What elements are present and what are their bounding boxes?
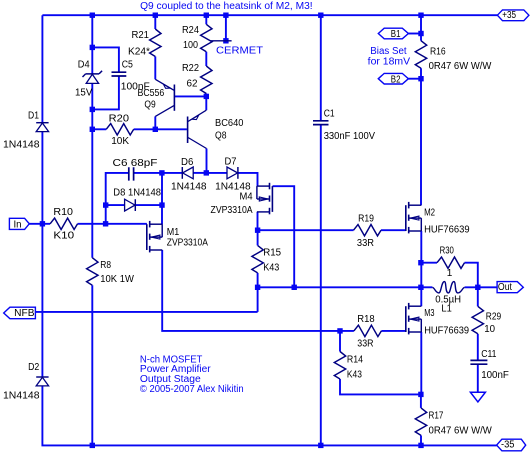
svg-text:K43: K43 <box>263 263 279 274</box>
junction <box>337 328 342 333</box>
svg-text:M2: M2 <box>424 208 435 219</box>
resistor R21 <box>128 29 161 58</box>
power tag +35 <box>497 10 529 21</box>
svg-text:BC640: BC640 <box>215 118 244 129</box>
wire <box>257 212 259 230</box>
diode D7 1N4148 <box>215 156 251 192</box>
mosfet M4 ZVP3310A (P-ch) <box>211 183 273 216</box>
junction <box>255 285 260 290</box>
svg-text:R14: R14 <box>347 354 364 365</box>
svg-text:15V: 15V <box>75 87 93 98</box>
wire <box>134 172 162 174</box>
wire <box>421 262 437 264</box>
wire <box>477 364 479 392</box>
wire <box>320 15 322 121</box>
svg-text:R24: R24 <box>182 25 199 36</box>
wire <box>339 331 341 352</box>
resistor R10 <box>50 207 78 241</box>
svg-text:BC556: BC556 <box>138 88 165 99</box>
wire <box>91 285 93 445</box>
svg-text:D2: D2 <box>28 362 40 373</box>
svg-text:0R47 6W W/W: 0R47 6W W/W <box>429 425 493 436</box>
svg-text:M3: M3 <box>424 308 435 319</box>
resistor R14 <box>334 352 363 381</box>
svg-text:D7: D7 <box>225 156 237 167</box>
wire <box>257 273 259 287</box>
svg-text:33R: 33R <box>357 338 373 349</box>
wire <box>408 33 421 35</box>
capacitor C1 <box>313 108 375 142</box>
svg-text:Bias Set: Bias Set <box>370 46 407 57</box>
svg-text:R16: R16 <box>430 47 446 58</box>
svg-text:D8 1N4148: D8 1N4148 <box>113 188 161 199</box>
wire <box>154 15 156 29</box>
junction <box>475 285 480 290</box>
svg-text:R22: R22 <box>182 63 199 74</box>
svg-text:330nF 100V: 330nF 100V <box>324 131 376 142</box>
junction <box>103 221 108 226</box>
wire <box>465 286 498 288</box>
wire <box>91 15 93 47</box>
svg-text:D1: D1 <box>28 110 39 121</box>
svg-text:NFB: NFB <box>14 308 35 319</box>
wire <box>258 286 421 288</box>
junction <box>90 127 95 132</box>
junction <box>418 285 423 290</box>
resistor R16 <box>415 41 492 72</box>
transistor Q8 BC640 (PNP) <box>188 110 244 148</box>
mosfet M2 HUF76639 (N-ch) <box>406 202 470 236</box>
wire <box>320 125 322 446</box>
capacitor C6 <box>113 158 158 181</box>
svg-text:10K: 10K <box>111 136 129 147</box>
svg-text:C11: C11 <box>481 349 497 360</box>
svg-text:D4: D4 <box>78 59 90 70</box>
resistor R17 <box>415 408 492 437</box>
svg-text:62: 62 <box>187 78 198 89</box>
wire <box>257 230 259 245</box>
diode D2 1N4148 <box>3 362 49 401</box>
junction <box>90 107 95 112</box>
port tag In <box>9 218 29 230</box>
wire <box>205 94 207 97</box>
wire <box>29 223 50 225</box>
svg-text:100nF: 100nF <box>481 370 509 381</box>
junction <box>153 13 158 18</box>
svg-text:100: 100 <box>183 40 198 51</box>
svg-text:10K 1W: 10K 1W <box>100 274 134 285</box>
wire <box>257 287 259 312</box>
svg-text:K43: K43 <box>347 369 362 380</box>
svg-text:0R47 6W W/W: 0R47 6W W/W <box>429 61 492 72</box>
resistor R29 <box>472 306 501 335</box>
wire <box>91 47 93 73</box>
mosfet M3 HUF76639 (N-ch) <box>406 303 470 337</box>
diode D8 1N4148 <box>113 188 161 211</box>
junction <box>159 170 164 175</box>
wire <box>225 15 227 41</box>
svg-text:R29: R29 <box>486 312 502 323</box>
resistor R20 <box>106 113 134 147</box>
wire <box>35 311 257 313</box>
wire <box>238 173 258 186</box>
junction <box>223 38 228 43</box>
wire <box>41 132 43 224</box>
svg-text:33R: 33R <box>357 238 374 249</box>
svg-text:Q9: Q9 <box>144 100 156 111</box>
wire <box>42 386 496 445</box>
wire <box>154 116 156 129</box>
ground <box>470 392 485 402</box>
svg-text:In: In <box>14 219 22 230</box>
wire <box>420 79 422 206</box>
wire <box>161 205 163 224</box>
resistor R8 <box>87 258 135 286</box>
wire <box>92 128 106 130</box>
mosfet M1 ZVP3310A (P-ch) <box>147 221 208 253</box>
wire <box>91 129 93 257</box>
svg-text:CERMET: CERMET <box>216 45 263 56</box>
svg-text:Q8: Q8 <box>215 130 227 141</box>
junction <box>90 45 95 50</box>
wire <box>91 109 93 129</box>
junction <box>103 202 108 207</box>
junction <box>418 392 423 397</box>
junction <box>418 13 423 18</box>
wire <box>106 204 125 206</box>
junction <box>318 13 323 18</box>
wire <box>477 287 479 306</box>
resistor R15 <box>252 245 282 273</box>
port tag B2 <box>378 73 408 85</box>
wire <box>193 172 206 174</box>
junction <box>255 228 260 233</box>
resistor R19 <box>354 214 382 250</box>
diode D1 1N4148 <box>3 110 49 150</box>
junction <box>153 127 158 132</box>
wire <box>174 95 206 97</box>
svg-text:R8: R8 <box>100 260 111 271</box>
wire <box>155 128 187 130</box>
port tag NFB <box>4 307 36 319</box>
svg-text:1: 1 <box>447 268 453 279</box>
junction <box>318 443 323 448</box>
wire <box>105 205 107 224</box>
svg-text:R17: R17 <box>429 411 444 422</box>
svg-text:© 2005-2007 Alex Nikitin: © 2005-2007 Alex Nikitin <box>140 384 244 395</box>
wire <box>205 15 207 24</box>
wire <box>154 57 156 80</box>
capacitor C11 <box>470 349 509 381</box>
wire <box>477 334 479 361</box>
resistor R18 <box>354 314 382 349</box>
junction <box>90 443 95 448</box>
junction <box>204 170 209 175</box>
svg-text:ZVP3310A: ZVP3310A <box>211 205 253 216</box>
junction <box>223 13 228 18</box>
svg-text:B2: B2 <box>391 75 401 86</box>
inductor L1 0.5uH <box>432 282 464 315</box>
svg-text:R20: R20 <box>109 113 130 124</box>
svg-text:-35: -35 <box>501 440 515 451</box>
wire <box>381 330 405 332</box>
port tag B1 <box>378 28 408 40</box>
wire <box>135 204 162 206</box>
svg-text:10: 10 <box>484 324 495 335</box>
port tag Out <box>497 282 523 293</box>
wire <box>258 229 354 231</box>
wire <box>465 263 478 288</box>
wire <box>381 229 406 231</box>
svg-text:R30: R30 <box>440 245 455 256</box>
wire <box>421 286 432 288</box>
junction <box>90 13 95 18</box>
wire <box>205 52 207 66</box>
wire <box>161 173 163 205</box>
wire <box>134 128 156 130</box>
junction <box>292 285 297 290</box>
wire <box>420 68 422 79</box>
wire <box>340 379 421 394</box>
wire <box>41 15 43 122</box>
junction <box>418 443 423 448</box>
svg-text:ZVP3310A: ZVP3310A <box>167 238 208 249</box>
svg-text:K10: K10 <box>53 230 74 241</box>
svg-text:Out: Out <box>498 282 512 293</box>
svg-text:M4: M4 <box>240 192 253 203</box>
capacitor C5 <box>112 59 150 92</box>
resistor R30 <box>437 245 465 279</box>
resistor R24 (cermet trimmer) <box>182 24 232 52</box>
wire <box>420 15 422 41</box>
svg-text:R18: R18 <box>357 314 375 325</box>
svg-text:R15: R15 <box>263 247 281 258</box>
svg-text:+35: +35 <box>502 10 516 21</box>
wire <box>420 332 422 394</box>
wire <box>92 76 119 109</box>
wire <box>273 186 295 287</box>
svg-text:D6: D6 <box>181 157 194 168</box>
wire <box>106 173 129 205</box>
wire <box>42 14 497 16</box>
svg-text:B1: B1 <box>391 29 401 40</box>
wire <box>420 394 422 408</box>
wire <box>420 231 422 306</box>
diode D6 1N4148 <box>171 157 207 193</box>
wire <box>78 223 147 225</box>
svg-text:R10: R10 <box>53 207 73 218</box>
svg-text:1N4148: 1N4148 <box>3 391 40 402</box>
wire <box>41 224 43 377</box>
svg-text:R21: R21 <box>132 30 150 41</box>
junction <box>159 202 164 207</box>
svg-text:for 18mV: for 18mV <box>368 57 411 68</box>
junction <box>204 94 209 99</box>
wire <box>420 435 422 445</box>
resistor R22 <box>182 63 212 94</box>
junction <box>204 13 209 18</box>
power tag -35 <box>497 439 526 451</box>
wire <box>205 96 207 110</box>
junction <box>418 260 423 265</box>
transistor Q9 BC556 (PNP) <box>138 79 175 116</box>
wire <box>91 84 93 110</box>
wire <box>206 172 227 174</box>
svg-text:1N4148: 1N4148 <box>3 139 40 150</box>
svg-text:C5: C5 <box>122 59 134 70</box>
svg-text:R19: R19 <box>358 214 374 225</box>
svg-text:M1: M1 <box>167 227 180 238</box>
junction <box>418 31 423 36</box>
svg-text:HUF76639: HUF76639 <box>424 326 469 337</box>
wire <box>162 250 354 331</box>
svg-text:1N4148: 1N4148 <box>171 181 207 192</box>
junction <box>40 221 45 226</box>
wire <box>162 172 182 174</box>
svg-text:HUF76639: HUF76639 <box>424 225 470 236</box>
svg-text:C6 68pF: C6 68pF <box>113 158 158 169</box>
wire <box>408 78 421 80</box>
zener D4 15V <box>75 59 102 98</box>
svg-text:L1: L1 <box>441 304 452 315</box>
wire <box>206 149 208 173</box>
svg-text:Q9 coupled to the heatsink of: Q9 coupled to the heatsink of M2, M3! <box>140 1 313 12</box>
svg-text:K24*: K24* <box>128 47 150 58</box>
svg-text:C1: C1 <box>324 108 335 119</box>
wire <box>92 47 119 72</box>
junction <box>418 76 423 81</box>
